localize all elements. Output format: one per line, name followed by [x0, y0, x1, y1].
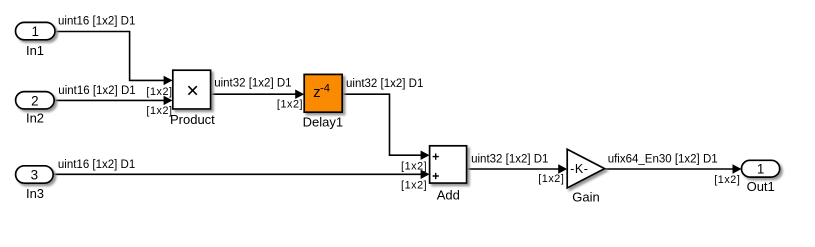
svg-text:Product: Product	[170, 112, 215, 127]
svg-text:uint32 [1x2] D1: uint32 [1x2] D1	[214, 77, 291, 89]
svg-text:[1x2]: [1x2]	[401, 180, 427, 192]
svg-text:In3: In3	[26, 186, 44, 201]
svg-text:[1x2]: [1x2]	[277, 99, 303, 111]
svg-text:[1x2]: [1x2]	[714, 174, 740, 186]
svg-text:[1x2]: [1x2]	[146, 86, 172, 98]
svg-text:uint16 [1x2] D1: uint16 [1x2] D1	[58, 85, 135, 97]
svg-text:3: 3	[31, 168, 38, 183]
svg-text:In1: In1	[26, 43, 44, 58]
svg-text:2: 2	[31, 93, 38, 108]
svg-text:Out1: Out1	[747, 179, 775, 194]
svg-text:-4: -4	[320, 83, 330, 95]
svg-text:Gain: Gain	[572, 190, 599, 205]
svg-text:Add: Add	[437, 187, 460, 202]
svg-text:-K-: -K-	[570, 162, 588, 176]
svg-text:uint16 [1x2] D1: uint16 [1x2] D1	[58, 159, 135, 171]
svg-text:Delay1: Delay1	[303, 115, 343, 130]
svg-text:1: 1	[31, 24, 38, 39]
svg-text:[1x2]: [1x2]	[538, 173, 564, 185]
svg-text:ufix64_En30 [1x2] D1: ufix64_En30 [1x2] D1	[608, 153, 718, 165]
svg-text:uint32 [1x2] D1: uint32 [1x2] D1	[471, 153, 548, 165]
svg-text:[1x2]: [1x2]	[146, 105, 172, 117]
svg-text:1: 1	[757, 162, 764, 177]
svg-text:uint16 [1x2] D1: uint16 [1x2] D1	[58, 16, 135, 28]
svg-text:In2: In2	[26, 110, 44, 125]
svg-text:uint32 [1x2] D1: uint32 [1x2] D1	[346, 78, 423, 90]
svg-text:[1x2]: [1x2]	[401, 161, 427, 173]
